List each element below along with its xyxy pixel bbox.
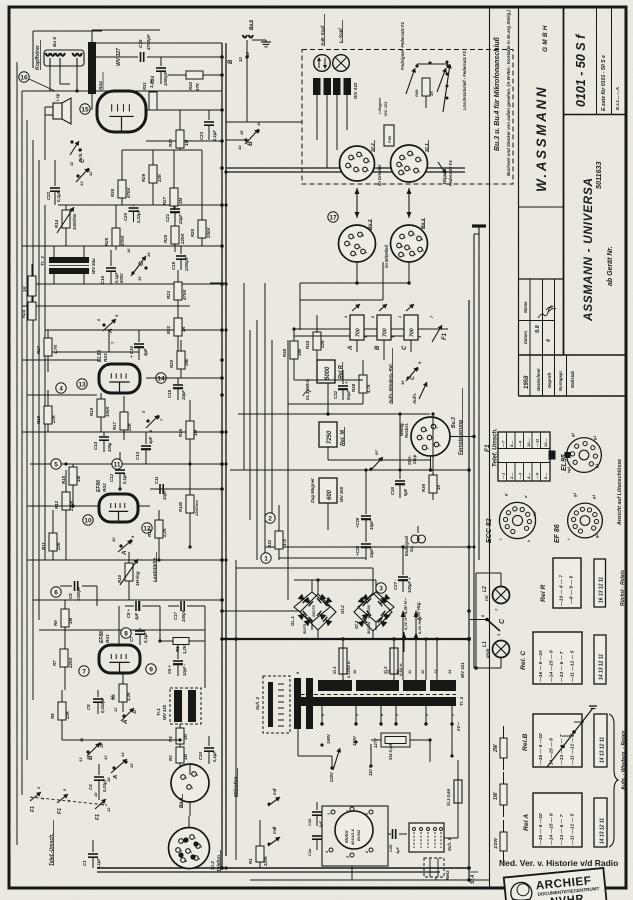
wire y110 segment	[146, 109, 222, 111]
circled 7	[79, 666, 89, 676]
svg-text:4014/3-6: 4014/3-6	[350, 828, 355, 846]
svg-text:1: 1	[451, 714, 455, 716]
resistor 1K (speaker feed)	[31, 264, 33, 276]
label Aufn switch	[419, 382, 427, 399]
resistor R28 200K	[201, 150, 203, 220]
relay contact table Rel B	[533, 714, 582, 767]
wire mid vertical x272	[271, 340, 273, 520]
svg-text:F1: F1	[484, 444, 491, 452]
svg-text:1: 1	[367, 161, 371, 163]
svg-text:—11 —12 — 5: —11 —12 — 5	[570, 650, 576, 683]
tap wires	[321, 724, 323, 745]
svg-text:B: B	[228, 59, 234, 64]
wire mid rail y414	[238, 413, 430, 415]
svg-text:—8 — 9 — 5: —8 — 9 — 5	[569, 575, 575, 605]
resistor R4 1M	[179, 724, 181, 728]
svg-text:0,1µF: 0,1µF	[212, 130, 217, 141]
capacitor C15 10uF	[177, 378, 179, 384]
svg-text:2—: 2—	[509, 472, 514, 480]
svg-text:B: B	[87, 755, 94, 760]
wire main vertical bus pair	[221, 43, 223, 868]
svg-text:E.satz für 0101 - 50 S e: E.satz für 0101 - 50 S e	[601, 55, 607, 111]
heavy supply rail y639	[222, 638, 469, 640]
svg-text:C17: C17	[173, 612, 178, 620]
svg-text:R19: R19	[89, 407, 94, 416]
svg-text:Tr. 4: Tr. 4	[459, 696, 464, 706]
heater supply arrows 6.3V	[402, 612, 404, 680]
double arrow St1-Bu1	[408, 188, 410, 218]
resistor R18 22K	[47, 390, 49, 406]
svg-text:—16 — 9 —10: —16 — 9 —10	[538, 733, 544, 766]
svg-text:5011633: 5011633	[594, 162, 603, 189]
svg-text:kg3: kg3	[567, 467, 571, 473]
svg-text:3,3K: 3,3K	[126, 691, 131, 701]
relay contact box B 700	[377, 315, 391, 340]
capacitor C28 16uF	[365, 532, 367, 542]
svg-text:190V: 190V	[326, 733, 331, 744]
tube EF86 Roe1 (7)	[99, 645, 140, 673]
capacitor C29 16uF	[365, 500, 367, 514]
svg-text:22K: 22K	[157, 173, 162, 183]
svg-text:+60/230: +60/230	[367, 604, 371, 619]
motor M 4014	[335, 811, 373, 849]
switch F1 contact b	[57, 794, 68, 803]
wire vertical bus x474	[473, 234, 475, 668]
svg-text:390: 390	[297, 348, 302, 356]
wire rail y464	[30, 463, 222, 465]
svg-text:R11: R11	[41, 542, 46, 550]
capacitor C21 20uF	[170, 208, 180, 210]
svg-text:A: A	[347, 345, 354, 351]
resistor R29 22K	[152, 150, 154, 165]
buzzer Endsignal Su	[417, 526, 419, 533]
svg-text:C21: C21	[165, 213, 170, 222]
svg-text:2: 2	[417, 171, 421, 174]
svg-text:Rückst - Relais: Rückst - Relais	[620, 570, 626, 606]
wire y460 extension	[360, 459, 430, 461]
svg-text:1: 1	[264, 555, 268, 562]
svg-text:8: 8	[124, 630, 128, 637]
svg-text:—3: —3	[518, 472, 523, 480]
svg-text:0,1µF: 0,1µF	[96, 858, 101, 869]
capacitor C25 4700pF	[96, 56, 138, 58]
wire y558 segment	[279, 557, 366, 559]
svg-text:14 13 12 11: 14 13 12 11	[600, 818, 606, 844]
resistor half W	[503, 820, 505, 832]
svg-text:Rel.B: Rel.B	[522, 734, 529, 751]
wires below Bu connectors	[356, 262, 358, 283]
svg-text:3: 3	[352, 237, 356, 239]
svg-text:17: 17	[329, 214, 337, 221]
svg-text:L1: L1	[482, 641, 488, 647]
double arrow St2-Bu2	[356, 188, 358, 218]
svg-text:R17: R17	[112, 421, 117, 430]
connector St 2	[340, 146, 375, 181]
svg-text:2W: 2W	[493, 743, 499, 753]
transformer secondary pin stubs with dots	[297, 706, 299, 724]
svg-text:C5: C5	[86, 704, 91, 710]
resistor R12 220K	[65, 470, 67, 492]
svg-text:4,7K: 4,7K	[366, 383, 371, 394]
svg-text:16µF: 16µF	[369, 520, 374, 530]
title block thick divider	[563, 7, 565, 355]
pin strip for Rel A	[594, 798, 607, 847]
svg-text:15: 15	[239, 130, 244, 135]
svg-text:+C28: +C28	[355, 545, 360, 556]
svg-text:10pF: 10pF	[162, 490, 167, 500]
relay contact box A 700	[350, 315, 364, 340]
circled 9	[146, 664, 156, 674]
resistor R6 3.3K	[122, 673, 124, 684]
title block W.ASSMANN box bottom	[519, 206, 564, 208]
svg-text:GMBH: GMBH	[542, 23, 549, 52]
switch C contacts 11 12 13	[76, 174, 79, 177]
svg-text:6: 6	[54, 589, 58, 596]
svg-text:Datum: Datum	[523, 331, 528, 344]
svg-text:C28: C28	[388, 844, 393, 852]
svg-text:10µF: 10µF	[181, 390, 186, 400]
svg-text:4µF: 4µF	[134, 612, 139, 621]
wire y611 to Gl1	[222, 610, 300, 612]
svg-text:Stop: Stop	[412, 454, 417, 464]
svg-text:0,1µF: 0,1µF	[143, 632, 148, 643]
wire y141 segment	[146, 140, 222, 142]
svg-text:C18: C18	[100, 275, 105, 284]
svg-text:390: 390	[184, 358, 189, 366]
potentiometer box P50 l-Hegner	[384, 125, 394, 146]
svg-text:3: 3	[365, 813, 369, 815]
svg-text:R25: R25	[104, 237, 109, 246]
wires Gl tops	[317, 580, 319, 594]
svg-text:Telef. Umsch.: Telef. Umsch.	[493, 428, 499, 467]
svg-text:10: 10	[238, 57, 243, 62]
wire y520 drop from tube 10	[138, 505, 150, 507]
svg-text:250/75: 250/75	[312, 604, 316, 618]
svg-text:5µF: 5µF	[403, 488, 408, 496]
svg-text:1: 1	[398, 316, 402, 318]
wire left margin long wire 3	[32, 140, 34, 700]
svg-text:Normgepr.: Normgepr.	[558, 370, 563, 391]
wire y283 left segment	[210, 282, 226, 284]
svg-text:0,1µF: 0,1µF	[122, 473, 127, 484]
svg-text:C6 +: C6 +	[167, 664, 172, 674]
svg-text:22K: 22K	[51, 414, 56, 424]
svg-text:C11: C11	[154, 476, 159, 484]
svg-text:4: 4	[400, 165, 404, 168]
wire y122 segment	[226, 121, 302, 123]
speaker l.sp	[53, 103, 62, 119]
svg-text:ASSMANN - UNIVERSA: ASSMANN - UNIVERSA	[581, 177, 595, 322]
svg-text:3: 3	[421, 438, 425, 440]
wire y360 segment	[22, 359, 99, 361]
dashed gang line F1	[30, 797, 107, 805]
connector Bu 2	[339, 225, 376, 262]
resistor R140 220 Ohm	[189, 464, 191, 495]
junction dots mid connectors	[355, 281, 358, 284]
svg-text:700: 700	[410, 328, 416, 337]
svg-text:g1: g1	[595, 464, 599, 469]
capacitor C9 1000pF	[60, 585, 72, 587]
svg-text:Rel A: Rel A	[523, 814, 530, 831]
svg-text:F1: F1	[95, 814, 101, 820]
svg-text:3: 3	[408, 169, 412, 171]
svg-text:C1: C1	[82, 860, 87, 866]
svg-text:ECC 82: ECC 82	[486, 518, 493, 543]
F1 Telef Umsch contact table	[498, 432, 550, 481]
svg-text:2200pF: 2200pF	[184, 256, 189, 272]
svg-text:1: 1	[327, 813, 331, 815]
svg-text:C27 -: C27 -	[393, 579, 398, 590]
svg-text:6,3V H∼: 6,3V H∼	[403, 614, 408, 630]
svg-text:F1: F1	[442, 332, 448, 340]
svg-text:14: 14	[157, 375, 165, 382]
title block label strip line	[519, 354, 627, 356]
circled 10	[83, 515, 93, 525]
capacitor C23 0.1uF	[208, 110, 210, 120]
resistor R25 470K	[115, 205, 117, 228]
jack prongs	[45, 53, 50, 56]
svg-text:Bu 1: Bu 1	[420, 218, 426, 229]
wire rail y91	[22, 90, 222, 92]
pin strip for Rel B	[594, 714, 607, 767]
svg-text:C24: C24	[150, 75, 155, 84]
svg-text:R28: R28	[190, 228, 195, 237]
svg-text:200K: 200K	[206, 227, 211, 239]
svg-text:R12: R12	[54, 500, 59, 509]
switch F1 top	[432, 325, 442, 342]
svg-text:100K: 100K	[105, 406, 110, 417]
svg-text:C26: C26	[307, 818, 312, 826]
svg-text:Zug Magnet: Zug Magnet	[310, 478, 315, 504]
switch A 11 12	[122, 714, 125, 717]
svg-text:470K: 470K	[182, 289, 187, 301]
capacitor C11 10pF	[150, 488, 158, 490]
svg-text:R34: R34	[305, 340, 310, 349]
svg-text:13: 13	[109, 695, 114, 700]
svg-text:C: C	[138, 261, 145, 266]
switch m III	[268, 837, 280, 846]
svg-text:1/2W: 1/2W	[493, 838, 498, 849]
svg-text:R24: R24	[21, 309, 26, 318]
svg-text:WV 332: WV 332	[353, 82, 358, 99]
svg-text:2: 2	[346, 810, 350, 813]
svg-text:2: 2	[268, 515, 272, 522]
svg-text:1: 1	[190, 787, 194, 789]
svg-text:grün: grün	[485, 648, 490, 659]
svg-text:Rel R: Rel R	[540, 585, 547, 602]
svg-text:16: 16	[256, 121, 261, 126]
wires from head coils	[316, 95, 318, 140]
svg-text:C2a: C2a	[307, 848, 312, 856]
wires from jacks	[49, 66, 51, 91]
wire vertical bus x469	[468, 300, 470, 880]
svg-text:C14: C14	[93, 441, 98, 450]
capacitor C5 0.022uF	[97, 690, 99, 697]
svg-text:R140: R140	[178, 501, 183, 512]
title table handwritten 1.5	[548, 308, 556, 312]
tube EF86 Roe2 (10)	[99, 494, 138, 522]
svg-text:Sch. 1: Sch. 1	[447, 838, 452, 851]
svg-text:Su.: Su.	[409, 545, 414, 552]
svg-text:R4: R4	[168, 736, 173, 742]
svg-text:ab Gerät Nr.: ab Gerät Nr.	[607, 246, 614, 286]
svg-text:—11 —12 — 5: —11 —12 — 5	[570, 813, 576, 846]
resistor R26 220K	[171, 226, 179, 244]
svg-text:Lautstärke: Lautstärke	[152, 557, 158, 582]
svg-text:R7: R7	[52, 660, 57, 666]
wire mid vertical x257	[256, 320, 258, 560]
wire mid vertical x244	[243, 283, 245, 470]
svg-text:R1: R1	[248, 858, 253, 864]
svg-text:600: 600	[327, 489, 333, 500]
svg-text:rot: rot	[484, 595, 489, 601]
svg-text:C7: C7	[129, 636, 134, 642]
svg-text:F1: F1	[57, 808, 63, 814]
wire jack Bu6 drop	[246, 57, 248, 122]
svg-text:C: C	[401, 345, 408, 350]
svg-text:13: 13	[78, 757, 83, 762]
lamp L1 gruen	[493, 641, 510, 658]
tube ECC82 Roe4 (15)	[97, 91, 146, 132]
svg-text:0101 - 50 S f: 0101 - 50 S f	[574, 33, 588, 107]
svg-text:Bu.4: Bu.4	[178, 797, 184, 808]
title block 0101 box bottom	[564, 114, 627, 116]
svg-text:1M: 1M	[184, 140, 189, 146]
svg-text:R30: R30	[168, 138, 173, 147]
ground symbol near Bu 6	[252, 39, 266, 41]
svg-text:A: A	[113, 775, 119, 780]
svg-text:—16 — 9 —10: —16 — 9 —10	[538, 813, 544, 846]
mains switch Netz block	[424, 858, 444, 877]
svg-text:0,22µF: 0,22µF	[136, 209, 141, 223]
capacitor C14	[103, 432, 105, 436]
svg-text:Bu 2: Bu 2	[367, 219, 373, 230]
tube EL95 Roe3 (13)	[99, 364, 140, 393]
svg-text:3: 3	[184, 777, 188, 779]
svg-text:WV 335: WV 335	[162, 704, 167, 720]
wire left margin long wire 2	[26, 120, 28, 760]
switch 10 C	[407, 377, 410, 380]
svg-text:R22: R22	[166, 325, 171, 334]
svg-text:mⅡ: mⅡ	[272, 788, 277, 795]
wires mid right	[294, 379, 363, 381]
F1 table key black square	[549, 451, 556, 460]
svg-text:1: 1	[364, 252, 368, 254]
resistor R1 220K relocate wire	[259, 820, 261, 846]
circled 15	[80, 104, 90, 114]
wire rail y246	[22, 245, 222, 247]
capacitor C4 0.01uF	[98, 764, 100, 775]
potentiometer R10 1M log Lautstaerke	[128, 552, 130, 563]
svg-text:R15: R15	[61, 475, 66, 484]
svg-text:2: 2	[348, 244, 352, 247]
svg-text:W.ASSMANN: W.ASSMANN	[534, 85, 549, 192]
resistor R32 470	[278, 505, 280, 531]
dashed connector panel box	[302, 50, 513, 185]
svg-text:14: 14	[120, 752, 125, 757]
svg-text:St.4: St.4	[470, 875, 476, 884]
svg-text:+: +	[344, 381, 349, 384]
input transformer Tr1 WV335	[170, 688, 201, 724]
svg-text:St.3: St.3	[210, 861, 216, 870]
switch F1 contact c	[95, 799, 106, 809]
svg-text:4: 4	[425, 430, 429, 433]
resistor R31 3.3K	[149, 92, 157, 110]
svg-text:14 13 12 11: 14 13 12 11	[599, 654, 605, 680]
svg-text:16: 16	[126, 248, 131, 253]
wires Gl bottoms	[317, 630, 319, 639]
svg-text:0,1µF: 0,1µF	[56, 190, 61, 202]
svg-text:2: 2	[189, 851, 193, 854]
capacitor C24 1000pF	[160, 57, 162, 66]
record-play head symbol with arrows	[314, 55, 331, 72]
junction dots relay rails	[292, 327, 295, 330]
resistor R13 2.2K	[158, 510, 160, 520]
svg-text:100pF: 100pF	[181, 609, 186, 622]
svg-text:Motor: Motor	[344, 830, 349, 843]
relay contact box C 700	[404, 315, 418, 340]
svg-text:22K: 22K	[56, 541, 61, 551]
svg-text:15: 15	[81, 106, 89, 113]
resistor R38 390	[293, 330, 295, 341]
wire rail y432	[22, 431, 222, 433]
svg-text:470K: 470K	[120, 235, 125, 247]
svg-text:—9: —9	[518, 440, 523, 448]
svg-text:13: 13	[78, 381, 86, 388]
wire y568 segment	[236, 567, 373, 569]
svg-text:6,3V H∼: 6,3V H∼	[403, 597, 408, 614]
svg-text:3: 3	[352, 158, 356, 160]
svg-text:g1: g1	[592, 495, 596, 500]
switch F1 contact a	[30, 792, 41, 801]
svg-text:R26: R26	[163, 234, 168, 243]
fuse Si1 0.125A	[342, 639, 344, 648]
svg-text:9: 9	[420, 239, 424, 241]
svg-text:+C29: +C29	[355, 517, 360, 528]
svg-text:R3: R3	[168, 755, 173, 761]
svg-text:220K: 220K	[180, 233, 185, 245]
mains transformer Tr3 windings	[49, 257, 89, 263]
wires bottom left lattice	[65, 599, 97, 601]
svg-text:Tr.1: Tr.1	[156, 708, 161, 716]
wire stems to transformer	[425, 639, 427, 680]
svg-text:10: 10	[93, 792, 98, 797]
svg-text:L2: L2	[482, 586, 488, 592]
svg-text:15: 15	[137, 276, 142, 281]
resistor R16 1M	[189, 400, 191, 421]
circled 17	[328, 212, 338, 222]
svg-text:100µ: 100µ	[107, 442, 112, 452]
capacitor C6 10uF	[177, 645, 179, 659]
resistor R34 22K	[316, 315, 318, 332]
svg-text:R5: R5	[50, 713, 55, 719]
svg-text:10—: 10—	[526, 438, 531, 447]
Rel B actuation diagonal with ground	[547, 708, 593, 767]
svg-text:WV 359: WV 359	[339, 486, 344, 502]
svg-text:470K: 470K	[126, 187, 131, 199]
svg-text:C22: C22	[46, 191, 51, 200]
svg-text:Sch. 3: Sch. 3	[78, 148, 83, 162]
resistor R36 1K	[432, 460, 434, 475]
relay contact table Rel C	[533, 632, 582, 684]
svg-text:10: 10	[400, 380, 405, 385]
svg-text:1K: 1K	[181, 326, 186, 332]
svg-text:47K: 47K	[195, 82, 200, 92]
transformer core dashed line	[294, 694, 456, 696]
svg-text:1,2K: 1,2K	[182, 644, 187, 654]
svg-text:R13: R13	[147, 528, 152, 537]
relay switch block Sch1	[409, 823, 444, 852]
